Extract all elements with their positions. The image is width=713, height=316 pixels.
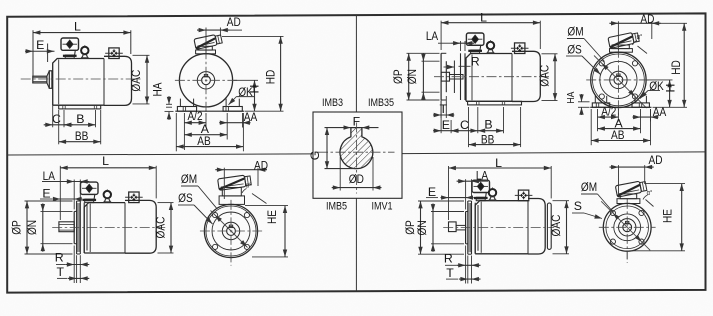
IMV1 front center lines xyxy=(599,226,656,228)
IMB35 body xyxy=(466,51,540,101)
IMB5 front terminal box (tilted) xyxy=(218,174,252,190)
svg-text:IMB35: IMB35 xyxy=(368,97,394,109)
IMB35 front dimension H xyxy=(647,79,673,81)
IMB5 fan cover bolt box xyxy=(125,192,143,203)
IMB35 front flange bolt holes xyxy=(599,61,637,99)
IMB35 dimension BB xyxy=(468,107,470,147)
IMB35 front dimension AB xyxy=(590,109,592,145)
IMB5 dimension T xyxy=(76,255,78,283)
svg-text:ØAC: ØAC xyxy=(549,214,563,236)
IMB3 front shaft hub xyxy=(197,72,214,89)
IMB35 front stator circle xyxy=(591,52,646,107)
IMB5 terminal box xyxy=(81,182,99,203)
svg-text:ØM: ØM xyxy=(567,25,583,39)
svg-text:ØK: ØK xyxy=(238,85,253,99)
IMB5 front bolt hole axis xyxy=(211,211,248,248)
shaft section with key (hatched) xyxy=(340,128,373,169)
IMB3 front dimension A xyxy=(226,113,228,140)
IMB5 dimension R xyxy=(73,246,75,284)
svg-text:E: E xyxy=(42,187,50,201)
IMB35 dimension R leader xyxy=(444,66,455,68)
svg-text:AD: AD xyxy=(649,153,663,167)
svg-text:T: T xyxy=(56,265,64,279)
IMB35 front bolt hole axis xyxy=(594,56,647,109)
IMB35 front terminal box (tilted) xyxy=(608,31,640,48)
svg-text:ØN: ØN xyxy=(25,220,39,235)
IMB5 body xyxy=(84,200,156,253)
IMB3 terminal box xyxy=(61,38,79,59)
svg-text:α°: α° xyxy=(246,182,252,190)
svg-text:ØN: ØN xyxy=(405,69,419,84)
svg-text:ØAC: ØAC xyxy=(538,65,552,87)
IMB3 front leader ØK xyxy=(237,96,255,98)
IMB5 endbell joint xyxy=(83,203,85,253)
IMB35 front center lines xyxy=(586,79,650,81)
IMB3 fan cover bolt box xyxy=(105,48,123,59)
svg-text:R: R xyxy=(444,252,453,266)
svg-text:ØN: ØN xyxy=(415,220,429,235)
svg-text:HA: HA xyxy=(565,92,577,104)
IMV1 flange xyxy=(466,201,472,254)
IMB5 centerline xyxy=(52,227,165,229)
IMB35 shaft (block and neck) xyxy=(441,72,463,81)
IMB35 front dimension A xyxy=(640,109,642,133)
IMB5 front swivel leader xyxy=(252,194,267,204)
IMB3 body xyxy=(53,56,132,105)
dimension ØD xyxy=(339,157,341,191)
IMB5 front dimension HE xyxy=(245,205,288,207)
svg-text:LA: LA xyxy=(476,169,489,183)
svg-text:C: C xyxy=(52,112,61,126)
svg-text:IMB5: IMB5 xyxy=(326,201,347,213)
horizontal divider right xyxy=(402,152,706,154)
IMV1 front dimension AD xyxy=(618,165,620,196)
IMB5 shaft with key xyxy=(9,153,685,283)
IMB35 lifting eyebolt xyxy=(487,40,495,53)
IMB35 mounting feet xyxy=(468,101,522,105)
IMB35 front swivel leader xyxy=(638,46,648,54)
IMB5 lifting eyebolt xyxy=(103,189,111,202)
svg-text:ØS: ØS xyxy=(567,42,582,56)
IMB3 front stator circle xyxy=(179,54,232,107)
IMV1 front bolt hole axis xyxy=(601,201,650,250)
svg-text:ØAC: ØAC xyxy=(129,70,143,92)
IMB35 flange plate at body xyxy=(460,53,462,100)
svg-text:IMV1: IMV1 xyxy=(371,201,392,213)
svg-text:AA: AA xyxy=(244,110,258,124)
IMB35 front dimension AD xyxy=(617,21,619,50)
IMB5 front dimension AD xyxy=(223,168,225,199)
svg-text:LA: LA xyxy=(43,169,56,183)
IMB35 front dimension A/2 xyxy=(597,109,599,131)
IMV1 dimension ØN xyxy=(431,211,464,213)
IMV1 front terminal box base xyxy=(617,194,640,204)
IMB3 front terminal box base xyxy=(196,46,216,54)
IMB5 dimension ØAC xyxy=(158,202,174,204)
svg-text:ØK: ØK xyxy=(649,79,664,93)
svg-text:F: F xyxy=(353,114,361,128)
IMB3 mounting feet xyxy=(59,105,101,109)
IMB5 shaft with key xyxy=(59,222,74,232)
IMB3 bearing cap xyxy=(47,71,52,89)
IMB3 front dimension H xyxy=(234,79,259,81)
IMB3 front dimension A/2 xyxy=(183,113,185,150)
svg-text:α°: α° xyxy=(637,33,643,41)
IMB35 terminal box xyxy=(466,33,484,54)
IMV1 centerline xyxy=(443,227,554,229)
IMB3 centerline xyxy=(21,78,141,80)
IMB3 dimension ØAC xyxy=(133,54,150,56)
IMB3 front center lines xyxy=(175,79,237,81)
IMB3 dimension L xyxy=(32,30,34,76)
IMB5 dimension LA xyxy=(73,180,75,210)
svg-text:R: R xyxy=(471,54,480,68)
IMB3 dimension B xyxy=(95,110,97,127)
IMB35 dimension ØN xyxy=(422,60,440,62)
svg-text:ØAC: ØAC xyxy=(153,216,167,238)
svg-text:IMB3: IMB3 xyxy=(322,97,343,109)
svg-text:AD: AD xyxy=(640,12,654,26)
IMB35 front terminal box base xyxy=(610,45,633,52)
IMB5 dimension E xyxy=(52,198,82,200)
IMB35 dimension E xyxy=(440,101,442,133)
IMB35 front dimension HA xyxy=(578,101,590,103)
dimension HA (between views) xyxy=(166,103,172,105)
dimension F xyxy=(325,127,351,129)
IMB35 dimension L xyxy=(440,21,442,50)
IMB35 front leader ØK xyxy=(648,90,660,92)
svg-text:A/2: A/2 xyxy=(187,109,202,123)
IMB35 centerline xyxy=(434,76,549,78)
svg-text:B: B xyxy=(484,118,492,132)
IMV1 front flange bolt holes xyxy=(610,210,644,244)
IMB3 dimension C xyxy=(52,90,54,127)
IMV1 dimension E xyxy=(441,197,474,199)
svg-text:LA: LA xyxy=(426,29,439,43)
IMV1 fan cover bolt box xyxy=(515,190,533,201)
IMB35 dimension C xyxy=(477,107,479,133)
IMB5 front stator circle xyxy=(204,204,257,257)
IMV1 dimension ØP xyxy=(418,200,464,202)
IMB3 shaft xyxy=(33,76,47,83)
svg-text:AD: AD xyxy=(227,15,241,29)
dimension G xyxy=(326,128,328,169)
IMB3 front dimension AA xyxy=(242,113,244,128)
svg-text:R: R xyxy=(55,251,64,265)
IMB35 dimension B xyxy=(503,107,505,133)
vertical divider bottom xyxy=(355,198,357,291)
IMV1 body xyxy=(475,199,545,255)
IMB3 lifting eyebolt xyxy=(81,45,89,58)
IMB35 dimension ØP xyxy=(407,52,440,54)
IMB35 front feet xyxy=(590,96,651,108)
svg-text:BB: BB xyxy=(481,132,495,146)
svg-text:L: L xyxy=(74,19,81,33)
IMB3 front dimension AD xyxy=(205,28,207,55)
IMB5 flange xyxy=(74,201,80,254)
svg-text:G: G xyxy=(308,151,322,161)
svg-text:E: E xyxy=(442,118,450,132)
IMV1 dimension LA xyxy=(465,179,467,209)
IMV1 front terminal box (tilted) xyxy=(615,180,647,197)
IMB3 front dimension AB xyxy=(175,113,177,151)
IMV1 shaft (block and neck) xyxy=(449,222,466,232)
IMB35 dimension ØAC xyxy=(542,53,558,55)
IMB35 fan cover bolt box xyxy=(511,43,529,54)
svg-text:HA: HA xyxy=(151,82,165,97)
IMV1 front centerline extension xyxy=(626,252,628,263)
svg-text:L: L xyxy=(480,10,487,24)
svg-text:ØP: ØP xyxy=(9,220,23,235)
svg-text:E: E xyxy=(428,185,436,199)
svg-text:AD: AD xyxy=(254,158,268,172)
IMV1 front dimension HE xyxy=(646,183,685,185)
svg-text:HD: HD xyxy=(669,60,683,75)
IMV1 dimension L xyxy=(448,166,450,220)
IMB35 front dimension HD xyxy=(654,22,688,24)
IMB3 dimension E xyxy=(47,44,49,63)
svg-text:AB: AB xyxy=(197,134,211,148)
IMV1 front shaft hub xyxy=(619,219,636,236)
IMV1 terminal box xyxy=(472,180,490,201)
IMB5 dimension L xyxy=(59,166,61,220)
svg-text:L: L xyxy=(495,156,502,170)
svg-text:AA: AA xyxy=(653,105,667,119)
svg-text:ØP: ØP xyxy=(391,69,405,84)
svg-text:AB: AB xyxy=(611,128,625,142)
IMV1 rear cover strip xyxy=(547,203,551,249)
svg-text:ØM: ØM xyxy=(181,172,197,186)
svg-text:HE: HE xyxy=(661,209,675,223)
IMV1 dimension R xyxy=(465,246,467,284)
shaft section centerlines xyxy=(318,151,395,153)
svg-text:H: H xyxy=(664,84,678,93)
IMB5 dimension ØN xyxy=(41,210,73,212)
IMB3 front terminal box (tilted) xyxy=(194,34,222,50)
IMB5 front terminal box base xyxy=(219,188,244,205)
svg-text:B: B xyxy=(76,112,84,126)
IMB5 front center lines xyxy=(200,230,262,232)
IMV1 dimension ØAC xyxy=(553,200,570,202)
IMB35 front shaft hub xyxy=(610,71,627,88)
svg-text:ØD: ØD xyxy=(349,172,364,186)
IMB35 dimension LA xyxy=(460,41,462,51)
IMB35 dimension T xyxy=(440,96,442,118)
IMV1 front swivel leader xyxy=(646,200,654,207)
svg-text:T: T xyxy=(446,266,454,280)
svg-text:BB: BB xyxy=(75,129,89,143)
IMB5 front shaft hub xyxy=(222,222,239,239)
IMB5 dimension ØP xyxy=(25,200,73,202)
svg-text:E: E xyxy=(36,38,44,52)
IMB3 dimension BB xyxy=(58,110,60,144)
svg-text:HE: HE xyxy=(265,210,279,224)
svg-text:ØM: ØM xyxy=(581,180,597,194)
svg-text:HD: HD xyxy=(263,70,277,85)
IMB35 flange xyxy=(441,53,446,100)
IMB3 front dimension HD xyxy=(222,35,284,37)
svg-text:L: L xyxy=(102,154,109,168)
IMV1 lifting eyebolt xyxy=(489,188,497,201)
IMB35 front dimension AA xyxy=(650,109,652,122)
IMV1 front stator circle xyxy=(603,203,651,251)
IMV1 endbell joint xyxy=(474,203,476,254)
horizontal divider left xyxy=(7,154,313,155)
IMB5 front flange bolt holes xyxy=(213,213,250,250)
shaft cross-section box xyxy=(313,112,402,198)
svg-text:S: S xyxy=(574,199,582,213)
svg-text:C: C xyxy=(460,118,469,132)
svg-text:α°: α° xyxy=(647,189,653,197)
svg-text:ØS: ØS xyxy=(178,191,193,205)
IMB3 front feet xyxy=(175,99,244,112)
vertical divider top xyxy=(355,15,357,112)
IMV1 dimension T xyxy=(467,256,469,284)
IMB35 bearing hub line xyxy=(453,61,455,94)
